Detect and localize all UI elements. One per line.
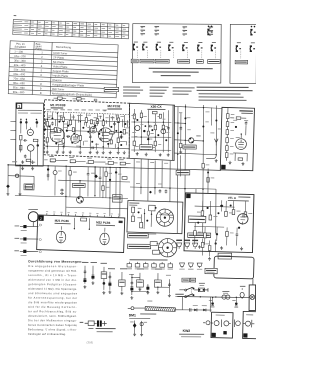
svg-text:trastregler auf Linksanschlag.: trastregler auf Linksanschlag. <box>28 333 66 336</box>
ZF tubes <box>50 126 112 143</box>
inner dashed rail <box>44 112 129 115</box>
resistor ladder <box>225 108 234 161</box>
VTU resistor row <box>175 294 184 297</box>
svg-text:M22 PC86: M22 PC86 <box>96 220 111 224</box>
extra ZF detail strokes <box>45 114 127 151</box>
ZF wires <box>44 112 129 151</box>
label: M2 PC92 <box>107 104 122 109</box>
label: KW2 <box>179 329 204 337</box>
left supply columns <box>82 262 125 295</box>
DM1 leads and end connectors <box>128 307 191 310</box>
table: Frequenzen/Kanal table frame <box>13 20 129 39</box>
control label: HELLIGKEIT <box>188 233 211 238</box>
svg-text:ter auf Rechtsanschlag, Bild z: ter auf Rechtsanschlag, Bild zy- <box>28 310 77 313</box>
table 2 header text <box>14 42 71 52</box>
pin stubs on top edge <box>47 213 119 218</box>
VTL A accent blobs <box>197 204 241 229</box>
block: channel selector unit <box>127 200 183 233</box>
parts above box top edge <box>54 97 98 101</box>
secondary rail wires <box>8 176 130 209</box>
filter box 2 <box>243 311 258 338</box>
wire from spare box to indicator box <box>252 279 254 285</box>
caption above legend <box>130 259 168 260</box>
tube in right board <box>235 139 246 150</box>
svg-text:D: D <box>39 238 42 242</box>
svg-text:D: D <box>39 250 42 254</box>
antenna input terminals <box>14 225 38 256</box>
VTL A lower parts <box>193 223 243 251</box>
label box (type label) mid <box>183 145 196 149</box>
table 2 rows text <box>13 50 94 96</box>
diode pair to KW2 <box>190 305 212 312</box>
coil pair <box>211 319 231 327</box>
svg-text:40a—400: 40a—400 <box>14 64 26 67</box>
left margin connector parts below tuner <box>31 153 38 165</box>
boxed label on rail <box>72 183 85 187</box>
svg-text:Die angegebenen Gleichspan-: Die angegebenen Gleichspan- <box>28 265 77 268</box>
svg-text:für Antennenspannung, bei d: für Antennenspannung, bei der <box>28 297 77 300</box>
control label: AUTOMAT <box>128 233 149 238</box>
tube socket symbols row <box>177 240 198 249</box>
main supply bus wire <box>8 165 221 171</box>
label: DM1 <box>129 313 157 319</box>
transistor pin number lists <box>140 26 213 36</box>
svg-text:Chassis: Chassis <box>52 79 62 82</box>
tuner internal parts <box>18 110 42 164</box>
fuse symbol <box>240 286 246 299</box>
svg-text:90a—695: 90a—695 <box>13 91 25 94</box>
svg-text:Platte: Platte <box>35 48 42 51</box>
svg-text:M1 PCC88: M1 PCC88 <box>50 103 65 107</box>
svg-text:Video-Platte: Video-Platte <box>53 65 68 69</box>
svg-text:DM1: DM1 <box>129 313 136 317</box>
svg-text:50a—500: 50a—500 <box>14 68 26 71</box>
block: ZF amplifier board (dashed outline) <box>44 100 129 158</box>
junction dots on riser wires <box>177 106 217 155</box>
interference plug on upper wire <box>198 283 208 292</box>
filter box 1 <box>211 312 233 338</box>
board title <box>239 110 253 111</box>
svg-text:B: B <box>40 92 42 95</box>
mini circuit: oscilloscope probe <box>85 320 107 326</box>
selector accent blobs <box>137 206 156 221</box>
parts below HELLIGKEIT <box>201 238 217 260</box>
small parts on box top edge <box>61 217 122 232</box>
component row under ZF box <box>44 156 130 165</box>
VTL A title <box>228 196 251 202</box>
svg-text:widerstand von 1 MΩ in der die: widerstand von 1 MΩ in der die- <box>28 279 77 282</box>
bottom power wire <box>177 297 249 298</box>
svg-text:70a—650: 70a—650 <box>13 77 25 80</box>
svg-text:VTL A: VTL A <box>228 196 237 200</box>
svg-text:2: 2 <box>40 217 42 221</box>
svg-text:3: 3 <box>41 60 43 63</box>
coil stub left of filter box 1 <box>203 321 210 325</box>
svg-text:6: 6 <box>40 74 42 77</box>
wires between boards (mid gap) <box>130 159 216 234</box>
transistor case outline symbols <box>133 25 256 52</box>
svg-text:wird für die Messung Kurzschl.: wird für die Messung Kurzschl.- <box>28 306 77 309</box>
transistor type label boxes <box>131 59 247 64</box>
tiny label above delay line <box>147 300 152 303</box>
block: tuner front-end M21/M22 (tilted) <box>37 211 125 252</box>
block: X30 coupler board <box>129 103 174 160</box>
svg-text:—: — <box>40 78 43 81</box>
block: UKW tuner unit (pos 1) <box>16 103 44 166</box>
svg-text:UKW-Tuner: UKW-Tuner <box>53 52 67 56</box>
empty spare box <box>214 256 254 279</box>
small value texts in ZF <box>45 114 125 146</box>
VTL A parts <box>194 200 252 228</box>
DM1 delay line (hatched) <box>145 307 176 312</box>
block: right-hand board (YB) <box>220 107 254 170</box>
svg-text:KW2: KW2 <box>183 329 191 333</box>
svg-text:renvoltm., Ri = 10 MΩ – Tr: renvoltm., Ri = 10 MΩ – Trenn- <box>28 274 77 277</box>
svg-text:gebrängten Prüfgitter (Gesam: gebrängten Prüfgitter (Gesamt- <box>28 283 77 286</box>
supply filter parts column <box>130 273 171 300</box>
svg-text:Bezeichnung: Bezeichnung <box>56 46 72 50</box>
svg-text:4: 4 <box>41 65 43 68</box>
tuner unit marker 1 <box>17 103 22 108</box>
svg-text:widerstand 11 MΩ). Die Spannun: widerstand 11 MΩ). Die Spannungs- <box>28 288 77 291</box>
svg-text:30a—300: 30a—300 <box>14 59 26 62</box>
svg-text:85a—690: 85a—690 <box>13 86 25 89</box>
coil stub between boxes <box>235 320 241 327</box>
measurement instruction paragraph <box>28 265 78 336</box>
boxed label FRE ADR <box>205 268 217 273</box>
legend symbol row <box>127 262 203 270</box>
svg-text:NF-Platte: NF-Platte <box>53 61 65 64</box>
svg-text:1: 1 <box>18 105 20 109</box>
left drop wires with grounds <box>130 321 147 337</box>
svg-text:8: 8 <box>40 83 42 86</box>
svg-text:80a—680: 80a—680 <box>13 82 25 85</box>
svg-text:ZF-Platte: ZF-Platte <box>53 56 65 59</box>
right edge box with indicator <box>249 285 256 311</box>
link verticals bottom net <box>182 297 210 313</box>
tube M21 <box>56 231 66 243</box>
selector title <box>129 202 139 205</box>
tube M22 <box>100 233 110 245</box>
svg-text:die Bild muerflitz wiedergegeb: die Bild muerflitz wiedergegeben <box>28 301 78 304</box>
svg-text:1: 1 <box>41 51 43 54</box>
misc parts right of X30 <box>179 111 218 193</box>
small label box left of diagrams <box>104 87 118 91</box>
svg-text:Schaltbild: Schaltbild <box>14 46 26 49</box>
selector parts <box>131 205 174 230</box>
svg-text:M2 PC92: M2 PC92 <box>107 104 120 108</box>
board corner marker <box>221 165 226 170</box>
right board misc parts <box>228 117 248 166</box>
svg-text:5: 5 <box>41 69 43 72</box>
svg-text:nungswerte sind gemessen mit R: nungswerte sind gemessen mit Röh- <box>28 269 77 272</box>
tick mark top-left <box>14 14 17 17</box>
rotary fine tuner <box>148 234 177 257</box>
junction dots on bus <box>7 164 121 199</box>
svg-text:OW-Tuner: OW-Tuner <box>52 88 65 91</box>
svg-text:Impuls-Platte: Impuls-Platte <box>52 74 68 78</box>
isolating transformer symbol <box>222 291 230 299</box>
label: X30-CX <box>147 105 165 110</box>
svg-text:Durchführung von Messungen:: Durchführung von Messungen: <box>28 259 82 263</box>
supply labels +15V etc <box>108 268 171 275</box>
riser wires to tube box <box>8 165 120 217</box>
value labels above rail <box>46 109 106 110</box>
svg-text:Ausgangsübertrager-Platte: Ausgangsübertrager-Platte <box>52 83 85 87</box>
label: M21 PC86 <box>55 219 71 225</box>
svg-text:10a—200: 10a—200 <box>14 55 26 58</box>
table 1 cell text smudges <box>14 21 126 37</box>
parts between bus and lower rail <box>53 166 117 196</box>
V-arrow symbol <box>214 139 218 146</box>
leads to type labels <box>137 50 241 59</box>
connector sockets on box edge <box>39 238 42 254</box>
small boxed note right <box>218 253 232 259</box>
svg-text:1—100: 1—100 <box>14 50 23 53</box>
X30 extra detail <box>133 114 169 145</box>
extra riser details <box>177 107 222 176</box>
transistor near risers <box>189 138 194 143</box>
svg-text:60a—600: 60a—600 <box>13 73 25 76</box>
VTL A label box <box>188 216 206 223</box>
board marker 2 <box>38 215 43 220</box>
rotary channel switch <box>156 209 174 227</box>
svg-text:2: 2 <box>41 56 43 59</box>
antenna input loop <box>28 209 38 226</box>
DPST mains switch <box>179 287 198 298</box>
svg-text:M21 PC86: M21 PC86 <box>55 219 70 223</box>
svg-text:und Stromwerte sind angegeben: und Stromwerte sind angegeben <box>28 292 78 295</box>
extra parts below bus <box>99 167 127 197</box>
table: Baustein/Platte legend table frame <box>8 41 118 98</box>
switch label boxes <box>182 278 196 282</box>
annotation text columns <box>123 86 253 101</box>
caps to chassis under power wire <box>209 297 238 307</box>
grounds under tuner box bottom <box>21 167 34 170</box>
svg-text:benen Kennmarken haben folgend: benen Kennmarken haben folgende <box>28 324 78 327</box>
probe labels <box>88 328 115 332</box>
label box lower <box>176 170 190 175</box>
svg-text:dimensioniert, norm. Bildhelli: dimensioniert, norm. Bildhelligkeit. <box>28 315 77 318</box>
svg-text:Koppel-Platte: Koppel-Platte <box>53 70 70 74</box>
X30 internal parts <box>131 109 171 157</box>
note text under basing diagrams <box>149 68 213 77</box>
block: VTL A board (right) <box>184 193 254 253</box>
label: M22 PC86 <box>96 220 115 226</box>
VTL A marker <box>186 194 191 199</box>
svg-text:X30-CX: X30-CX <box>150 105 162 109</box>
svg-text:(358): (358) <box>87 340 94 344</box>
left edge stubs <box>10 121 16 139</box>
parts hanging from bus <box>6 161 122 203</box>
svg-text:9: 9 <box>40 87 42 90</box>
svg-text:Die bei den Meßwerten eingege-: Die bei den Meßwerten eingege- <box>28 319 77 322</box>
internal marker <box>223 331 226 334</box>
ZF resistors and caps <box>44 112 126 149</box>
svg-text:D: D <box>39 223 42 227</box>
box: transistor basing diagrams (left) <box>132 24 256 84</box>
ZF ground symbols <box>46 150 126 154</box>
control label: KONTRAST <box>128 244 151 249</box>
cap pair on mid wire <box>136 162 204 194</box>
svg-text:Bedeutung: ▽ ohne Signal, □ Ko: Bedeutung: ▽ ohne Signal, □ Kon- <box>28 328 77 331</box>
wires between X30 and right board <box>174 104 222 193</box>
label: M1 PCC88 HF-Verstaerker <box>50 103 65 108</box>
